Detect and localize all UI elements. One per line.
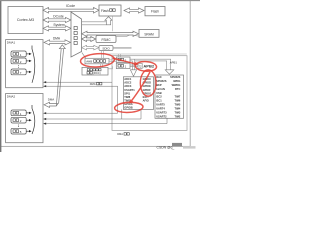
- APB2 peripherals box: [123, 77, 153, 110]
- svg-text:I2C2: I2C2: [156, 95, 162, 99]
- outer frame: [0, 0, 200, 152]
- dots: [17, 65, 20, 68]
- wire bridge2 to APB2 arrow: [130, 59, 137, 76]
- bus matrix to FSMC: [82, 37, 96, 42]
- svg-text:DMA2: DMA2: [7, 94, 16, 98]
- svg-text:RTC: RTC: [175, 87, 180, 91]
- svg-text:SRAM: SRAM: [144, 32, 154, 36]
- red arrow APB2 to GPIOA: [129, 72, 150, 104]
- wire hook right of RCC: [108, 66, 113, 69]
- bus ICode: [43, 4, 99, 13]
- wire dma request top2: [43, 85, 117, 113]
- svg-text:DCode: DCode: [53, 14, 64, 18]
- bus flash-if to flash: [124, 8, 144, 13]
- red ellipse AHB system bus: [80, 53, 115, 69]
- svg-text:TIM4: TIM4: [174, 107, 180, 111]
- svg-text:UART5: UART5: [156, 103, 165, 107]
- svg-text:SDIO: SDIO: [102, 47, 110, 51]
- dots: [17, 125, 20, 128]
- DMA1 channel7: [11, 69, 26, 75]
- wire dma2 request line2: [43, 109, 141, 120]
- svg-text:TIM7: TIM7: [174, 95, 180, 99]
- svg-text:TIM5: TIM5: [174, 103, 180, 107]
- wire dma2 request line1: [43, 112, 117, 114]
- svg-text:DAC: DAC: [156, 75, 162, 79]
- DMA2 channel2: [11, 117, 26, 123]
- svg-text:TIM3: TIM3: [174, 111, 180, 115]
- bridge1 box: [116, 63, 130, 68]
- arrows channels to funnel: [26, 113, 29, 131]
- svg-text:DMA1: DMA1: [7, 40, 16, 44]
- DMA1 funnel: [32, 49, 35, 83]
- DMA2 channel1: [11, 110, 26, 116]
- bus matrix to SRAM: [82, 31, 139, 36]
- svg-text:TIM8: TIM8: [124, 95, 130, 99]
- svg-text:Cortex-M3: Cortex-M3: [17, 18, 34, 22]
- label DMA request bottom: [117, 132, 129, 136]
- svg-text:APB2: APB2: [143, 63, 154, 68]
- wire FSMC right: [116, 35, 139, 37]
- wire bus down to bridge2: [119, 54, 121, 57]
- svg-text:Flash: Flash: [101, 9, 109, 13]
- svg-text:ADC2: ADC2: [124, 81, 132, 85]
- svg-text:WWDG: WWDG: [172, 83, 181, 87]
- DMA2 funnel: [32, 109, 35, 135]
- svg-text:FSMC: FSMC: [101, 38, 111, 42]
- svg-text:I2C1: I2C1: [156, 99, 162, 103]
- svg-text:(RCC): (RCC): [93, 71, 101, 75]
- DMA1 channel2: [11, 58, 26, 64]
- svg-text:CSDN @q_: CSDN @q_: [157, 146, 175, 150]
- svg-text:UART4: UART4: [156, 107, 165, 111]
- bus DMA1 to matrix: [44, 36, 71, 45]
- svg-text:SPI2/I2S: SPI2/I2S: [170, 75, 181, 79]
- DMA2 channel5: [11, 128, 26, 134]
- svg-text:IWDG: IWDG: [173, 79, 180, 83]
- svg-text:ADC3: ADC3: [124, 84, 132, 88]
- svg-text:TIM6: TIM6: [174, 99, 180, 103]
- svg-text:GPIOF: GPIOF: [143, 88, 151, 92]
- flash box: [145, 7, 165, 16]
- wire dma2 request line3: [43, 118, 167, 125]
- svg-text:USB: USB: [156, 91, 162, 95]
- wire SDIO down to AHB: [101, 51, 103, 59]
- svg-text:USART2: USART2: [156, 114, 167, 118]
- svg-text:bxCAN: bxCAN: [156, 87, 165, 91]
- svg-text:DMA: DMA: [53, 36, 61, 40]
- svg-text:System: System: [53, 23, 64, 27]
- junction small box: [138, 63, 142, 68]
- svg-text:AFIO: AFIO: [143, 98, 149, 102]
- DMA1 box: [6, 40, 43, 88]
- cpu Cortex-M3: [8, 7, 43, 34]
- svg-text:USART1: USART1: [124, 88, 135, 92]
- right container box: [112, 56, 187, 131]
- RCC box: [82, 67, 108, 75]
- bus matrix (trapezoid): [71, 12, 82, 57]
- svg-text:Flash: Flash: [151, 10, 159, 14]
- wire AHB box to bridges: [109, 60, 116, 62]
- red ellipse GPIOA GPIOB: [114, 102, 143, 113]
- red arrow AHB to APB2: [113, 58, 139, 66]
- bus System: [43, 23, 71, 31]
- flash interface box: [99, 5, 121, 16]
- svg-text:SPI3/I2S: SPI3/I2S: [156, 79, 167, 83]
- FSMC box: [96, 36, 116, 43]
- svg-text:TIM2: TIM2: [174, 114, 180, 118]
- APB1 peripherals box: [155, 75, 184, 118]
- wire SDIO right: [113, 47, 132, 48]
- svg-text:ICode: ICode: [66, 4, 75, 8]
- bus DCode: [43, 14, 71, 22]
- arrows channels to funnel: [26, 54, 29, 72]
- svg-text:USART3: USART3: [156, 111, 167, 115]
- wire AHB box down to RCC: [100, 64, 102, 68]
- watermark: [157, 143, 196, 150]
- DMA2 box: [6, 94, 43, 143]
- svg-text:BKP: BKP: [156, 83, 162, 87]
- bus matrix to SDIO: [82, 45, 99, 50]
- wire bridge1 to APB1 arrow: [130, 59, 174, 74]
- red ellipse APB2: [135, 61, 157, 72]
- svg-text:DMA: DMA: [90, 82, 96, 86]
- SRAM box: [139, 30, 159, 38]
- svg-text:GPIOB: GPIOB: [124, 106, 132, 110]
- wire matrix to AHB box: [82, 53, 86, 59]
- DMA2 bus to matrix riser: [44, 45, 65, 108]
- svg-text:GPIOE: GPIOE: [143, 84, 151, 88]
- DMA1 channel1: [11, 51, 26, 57]
- svg-text:APB1: APB1: [170, 60, 178, 64]
- svg-text:SPI1: SPI1: [124, 91, 130, 95]
- svg-text:DMA: DMA: [48, 98, 54, 102]
- svg-text:DMA: DMA: [117, 132, 123, 136]
- label DMA request top: [90, 82, 102, 86]
- svg-text:ADC1: ADC1: [124, 77, 132, 81]
- svg-text:AHB: AHB: [86, 60, 92, 64]
- bridge2 box: [116, 57, 130, 62]
- wire dma request top1: [43, 81, 112, 83]
- wire AHB horizontal long: [103, 53, 186, 55]
- node AHB system bus box: [85, 58, 109, 64]
- bus matrix to flash-if (diagonal): [82, 17, 112, 32]
- red ellipse GPIO column: [140, 70, 156, 96]
- SDIO box: [99, 46, 113, 51]
